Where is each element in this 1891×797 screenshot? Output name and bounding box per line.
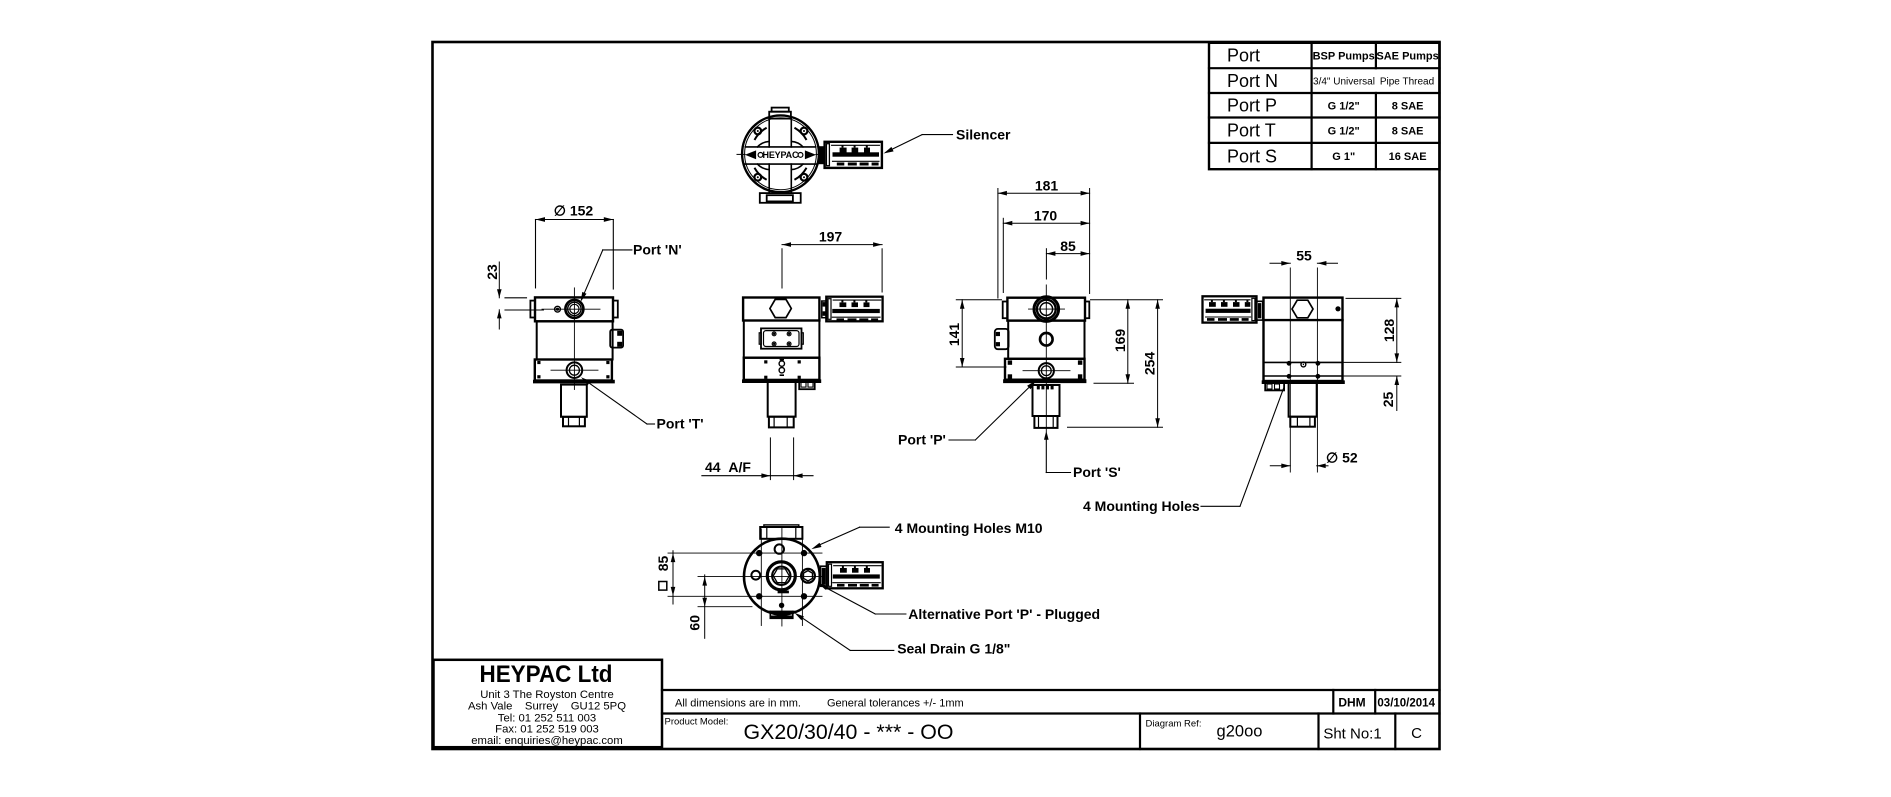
dimension 152 text <box>554 203 594 219</box>
svg-text:4 Mounting Holes M10: 4 Mounting Holes M10 <box>895 520 1043 536</box>
drawing frame border <box>433 42 1440 749</box>
svg-text:23: 23 <box>484 264 500 280</box>
square symbol <box>659 582 667 591</box>
front view name plate <box>759 328 803 348</box>
front view bottom band <box>744 358 820 380</box>
front view drain detail circles <box>779 359 784 376</box>
front view bottom band corner bolts <box>764 360 801 379</box>
bottom view silencer body <box>827 562 883 588</box>
front view silencer studs <box>837 300 879 321</box>
dimension 52 line and arrows <box>1270 464 1328 469</box>
svg-text:∅ 52: ∅ 52 <box>1326 450 1358 466</box>
port S label leader <box>1044 431 1071 473</box>
dimension 23 text <box>484 264 500 280</box>
front view middle band <box>744 321 820 358</box>
dimension 52 text <box>1326 450 1358 466</box>
port N label leader <box>581 250 632 302</box>
dimension 23 extension lines <box>505 298 543 310</box>
svg-text:Port N: Port N <box>1227 71 1278 91</box>
svg-text:170: 170 <box>1034 208 1058 224</box>
port table row Port N <box>1227 71 1434 91</box>
svg-text:HEYPAC: HEYPAC <box>763 150 800 160</box>
port T label leader <box>581 377 655 424</box>
top view corner relief arcs <box>755 128 806 179</box>
dimension 25 line and arrow <box>1395 376 1400 411</box>
svg-text:Silencer: Silencer <box>956 127 1011 143</box>
svg-text:181: 181 <box>1035 178 1059 194</box>
mounting holes label text <box>1083 498 1200 514</box>
dimension 169 line and arrows <box>1126 300 1131 384</box>
right view suction spigot <box>1289 383 1317 427</box>
top view centerline ticks <box>737 153 824 155</box>
left view port T boss <box>567 362 583 378</box>
left view small vent hole <box>555 306 561 312</box>
dimension 170 line and arrows <box>1003 221 1089 226</box>
dimension 85 extension line <box>1045 249 1047 279</box>
svg-text:Port 'S': Port 'S' <box>1073 464 1121 480</box>
left view thick base edge <box>535 380 613 384</box>
svg-text:Diagram Ref:: Diagram Ref: <box>1146 719 1202 730</box>
svg-text:Fax: 01 252 519 003: Fax: 01 252 519 003 <box>495 724 599 736</box>
dimension 128 25 extension lines <box>1343 298 1401 376</box>
port T label text <box>657 416 704 432</box>
port table row Port T <box>1227 121 1423 141</box>
svg-text:8 SAE: 8 SAE <box>1392 100 1424 112</box>
left view bottom band <box>535 360 612 381</box>
dimension 60 text <box>687 615 703 631</box>
port table row Port S <box>1227 146 1427 166</box>
front view thick base edge <box>744 379 820 383</box>
right view body outline <box>1264 298 1343 381</box>
bottom view mounting holes M10 <box>756 550 807 600</box>
top view lower mounting tab <box>760 193 801 203</box>
svg-text:BSP Pumps: BSP Pumps <box>1313 50 1375 62</box>
port table row Port P <box>1227 96 1423 116</box>
bottom view body circle <box>744 539 820 615</box>
left view port N boss <box>565 300 583 318</box>
dimension 44 A/F line and arrows <box>702 473 813 478</box>
date 03/10/2014 <box>1377 697 1435 709</box>
bottom view seal drain dot <box>779 603 784 608</box>
right view bottom left tab <box>1265 383 1284 391</box>
top view upper mounting tab <box>769 108 791 119</box>
dimension 44 A/F text <box>705 459 751 475</box>
bottom view silencer flange <box>821 566 827 586</box>
port table outer box <box>1209 43 1440 169</box>
svg-text:G 1/2": G 1/2" <box>1328 100 1360 112</box>
svg-text:16 SAE: 16 SAE <box>1389 151 1427 163</box>
svg-text:Product Model:: Product Model: <box>665 717 729 728</box>
svg-text:141: 141 <box>946 323 962 347</box>
bottom view suction boss center <box>767 562 795 594</box>
svg-text:Port: Port <box>1227 46 1260 66</box>
svg-text:Sht No:1: Sht No:1 <box>1323 725 1381 742</box>
front view silencer body <box>826 297 882 322</box>
svg-text:DHM: DHM <box>1338 695 1365 709</box>
dimension 197 text <box>819 229 843 245</box>
svg-text:g20oo: g20oo <box>1217 722 1263 740</box>
dimension 170 extension line <box>1002 218 1004 292</box>
dimension 141 text <box>946 323 962 347</box>
svg-text:∅ 152: ∅ 152 <box>554 203 594 219</box>
svg-text:SAE Pumps: SAE Pumps <box>1376 50 1438 62</box>
dimension 55 and 52 shared extension lines <box>1290 268 1317 472</box>
dimension 169 text <box>1112 329 1128 353</box>
dimension 197 extension lines <box>782 249 882 292</box>
dimension 55 text <box>1296 247 1312 263</box>
svg-text:55: 55 <box>1296 247 1312 263</box>
dimension 181 text <box>1035 178 1059 194</box>
svg-text:128: 128 <box>1381 319 1397 343</box>
right view silencer body <box>1203 296 1257 322</box>
right view silencer flange <box>1257 301 1263 320</box>
company title box HEYPAC <box>434 660 663 747</box>
revision letter C <box>1411 725 1422 742</box>
right view filler hexagon <box>1292 300 1313 318</box>
svg-text:8 SAE: 8 SAE <box>1392 125 1424 137</box>
silencer label leader <box>884 135 953 154</box>
port S label text <box>1073 464 1121 480</box>
svg-text:03/10/2014: 03/10/2014 <box>1377 697 1435 709</box>
front view bottom right tab <box>799 381 815 389</box>
company name HEYPAC Ltd <box>480 661 613 688</box>
svg-text:85: 85 <box>655 556 671 572</box>
bottom view silencer studs <box>837 566 879 587</box>
svg-text:60: 60 <box>687 615 703 631</box>
right view silencer studs <box>1207 300 1250 321</box>
port table grid lines <box>1209 43 1440 169</box>
dimension 85 text <box>1060 238 1076 254</box>
dimension 23 line and arrows <box>497 262 502 329</box>
dimension 197 line and arrows <box>782 242 882 247</box>
svg-text:Alternative Port 'P' - Plugged: Alternative Port 'P' - Plugged <box>908 606 1100 622</box>
rear view center plug <box>1040 333 1053 346</box>
dimension 55 line and arrows <box>1270 261 1338 266</box>
rear view middle band <box>1008 321 1084 359</box>
dimension 170 text <box>1034 208 1058 224</box>
seal drain label leader <box>794 613 893 651</box>
svg-text:G 1": G 1" <box>1332 151 1355 163</box>
rear view thick base edge <box>1005 379 1085 383</box>
left view side tabs <box>530 301 617 318</box>
silencer label text <box>956 127 1011 143</box>
rear view top band <box>1007 298 1085 321</box>
front view suction spigot <box>768 381 796 427</box>
svg-text:197: 197 <box>819 229 843 245</box>
right view flange bolts <box>1287 361 1321 379</box>
dimension 181 line and arrows <box>998 191 1090 196</box>
bottom view upper tab <box>760 525 802 539</box>
dimension 85 bottom text <box>655 556 671 572</box>
bottom view crosshair centerlines <box>668 529 825 627</box>
dimension 128 line and arrows <box>1395 298 1400 362</box>
svg-text:Port T: Port T <box>1227 121 1276 141</box>
left view side connector box <box>610 330 623 348</box>
rear view side tabs <box>1003 302 1090 319</box>
left view top cap band <box>535 297 613 321</box>
port N label text <box>633 242 682 258</box>
left view middle band <box>537 321 613 359</box>
front view name plate screws <box>772 332 791 346</box>
front view filler hexagon <box>770 299 791 317</box>
dimension 44 A/F extension lines <box>770 438 793 480</box>
svg-text:All dimensions are in mm.: All dimensions are in mm. <box>675 698 801 710</box>
svg-text:44 A/F: 44 A/F <box>705 459 751 475</box>
dimension 254 line and arrows <box>1155 300 1160 428</box>
right view flange lines <box>1264 362 1343 376</box>
alternative port P label text <box>908 606 1100 622</box>
product model cell <box>665 717 954 744</box>
port table header row: Port / BSP Pumps / SAE Pumps <box>1227 46 1439 66</box>
svg-text:254: 254 <box>1142 352 1158 376</box>
rear view port P boss <box>1023 363 1070 378</box>
svg-text:General tolerances +/- 1mm: General tolerances +/- 1mm <box>827 698 964 710</box>
company address lines <box>468 689 626 747</box>
dimension 254 text <box>1142 352 1158 376</box>
dimension 141 line and arrows <box>960 300 965 367</box>
bottom view small side hole <box>751 571 760 580</box>
svg-text:85: 85 <box>1060 238 1076 254</box>
top view silencer nipple <box>818 146 824 164</box>
svg-text:Port S: Port S <box>1227 146 1277 166</box>
rear view air inlet boss <box>1029 297 1065 322</box>
top view corner bolt bosses <box>754 128 807 181</box>
right view thick base edge <box>1264 380 1344 384</box>
rear view bottom band corner bolts <box>1008 360 1083 378</box>
dimension 85 line and arrows <box>1046 251 1089 256</box>
mounting holes M10 label leader <box>811 527 889 549</box>
port P label leader <box>949 381 1036 441</box>
drawn-by initials DHM <box>1338 695 1365 709</box>
dimension 152 extension lines <box>536 220 614 290</box>
alternative port P label leader <box>818 583 906 614</box>
sheet number cell <box>1323 725 1381 742</box>
dimension 25 text <box>1380 392 1396 408</box>
dimension 128 text <box>1381 319 1397 343</box>
rear view thread marks <box>1037 384 1054 389</box>
dimension 152 line and arrows <box>536 217 614 222</box>
rear view side connector box <box>995 329 1009 349</box>
right view small port dot <box>1335 306 1340 311</box>
dimension 85 bottom line and arrows <box>671 551 676 604</box>
port P label text <box>898 432 946 448</box>
svg-text:169: 169 <box>1112 329 1128 353</box>
bottom view seal drain hole <box>775 544 784 553</box>
dimension 181 extension lines <box>998 189 1090 299</box>
rear view bottom band <box>1005 359 1085 380</box>
svg-text:Port 'T': Port 'T' <box>657 416 704 432</box>
left view bottom band corner bolts <box>537 361 609 379</box>
svg-text:3/4" Universal: 3/4" Universal <box>1313 77 1375 88</box>
dimension 141 extension lines <box>956 300 1006 367</box>
tolerance note text <box>675 698 964 710</box>
svg-text:Ash Vale Surrey GU12 5PQ: Ash Vale Surrey GU12 5PQ <box>468 701 626 713</box>
mounting holes M10 label text <box>895 520 1043 536</box>
svg-text:email: enquiries@heypac.com: email: enquiries@heypac.com <box>471 735 623 747</box>
rear view vertical centerline <box>1045 285 1047 432</box>
top view HEYPAC logo band <box>747 151 815 158</box>
left view centerlines <box>542 288 600 390</box>
svg-text:Pipe Thread: Pipe Thread <box>1380 77 1434 88</box>
svg-text:Unit 3 The Royston Centre: Unit 3 The Royston Centre <box>480 689 614 701</box>
dimension 60 line and arrows <box>702 575 707 638</box>
front view top band <box>743 298 819 321</box>
mounting holes label leader <box>1201 389 1284 507</box>
svg-text:G 1/2": G 1/2" <box>1328 125 1360 137</box>
svg-text:25: 25 <box>1380 392 1396 408</box>
top view silencer studs <box>837 145 879 165</box>
top view cross rib outline <box>745 119 815 194</box>
top view silencer body <box>825 142 882 168</box>
bottom view lower tab <box>767 611 797 618</box>
diagram ref cell <box>1146 719 1263 741</box>
left view suction spigot <box>561 385 587 427</box>
svg-text:Port P: Port P <box>1227 96 1277 116</box>
top view pump body circle <box>742 115 819 192</box>
rear view suction spigot <box>1033 385 1060 428</box>
seal drain label text <box>897 641 1010 657</box>
svg-text:HEYPAC Ltd: HEYPAC Ltd <box>480 661 613 688</box>
svg-text:Seal Drain G 1/8": Seal Drain G 1/8" <box>897 641 1010 657</box>
svg-text:Port 'P': Port 'P' <box>898 432 946 448</box>
front view silencer flange <box>822 301 827 318</box>
svg-text:Port 'N': Port 'N' <box>633 242 682 258</box>
svg-text:GX20/30/40 - *** - OO: GX20/30/40 - *** - OO <box>744 721 954 744</box>
dimension 169 254 shared extension lines <box>1068 300 1163 428</box>
svg-text:C: C <box>1411 725 1422 742</box>
bottom view alternative port P plugged <box>801 569 815 583</box>
title block row lines <box>662 690 1440 749</box>
svg-text:4 Mounting Holes: 4 Mounting Holes <box>1083 498 1200 514</box>
